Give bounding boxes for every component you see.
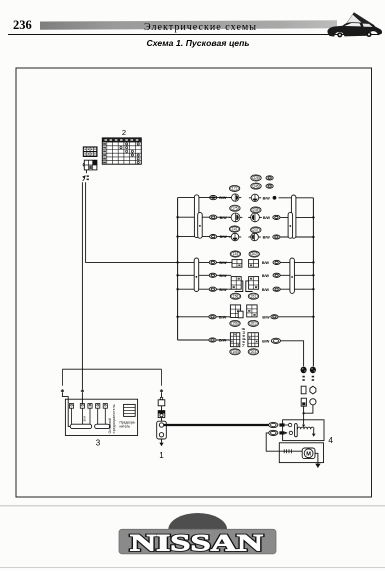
wire winding to motor <box>292 450 302 452</box>
rows5-6 grid connector right <box>246 281 253 292</box>
connector boot left <box>301 386 306 394</box>
svg-text:226: 226 <box>253 176 259 180</box>
wire row4 right <box>280 261 313 263</box>
grommet left lower <box>194 258 199 292</box>
badge 261b <box>248 320 258 326</box>
row4 grid connector right <box>249 260 259 268</box>
oval by 226 <box>266 176 273 180</box>
wire row6 <box>178 288 232 290</box>
wire row1 <box>178 197 232 199</box>
svg-text:245: 245 <box>253 184 259 188</box>
coil end arrow <box>313 429 315 433</box>
junction right bus r5 <box>312 274 314 276</box>
field winding <box>282 450 292 452</box>
wire row1 right <box>279 197 314 199</box>
row4 oval left <box>209 260 216 264</box>
grommet right upper B <box>288 212 293 238</box>
svg-text:235: 235 <box>253 208 259 212</box>
junction left bus r2 <box>176 216 178 218</box>
row3 oval left <box>210 235 217 239</box>
row2 right oval <box>273 215 280 219</box>
badge 235 <box>251 207 261 213</box>
wire row4 <box>178 261 232 263</box>
svg-text:155: 155 <box>232 350 238 354</box>
splice star 1 <box>61 389 63 392</box>
junction right bus r2 <box>312 216 314 218</box>
motor box <box>279 443 323 463</box>
svg-text:B/W: B/W <box>262 274 270 278</box>
svg-text:261: 261 <box>251 322 257 326</box>
junction right bus r7 <box>312 316 314 318</box>
comp1 body <box>161 418 163 422</box>
wire row2 <box>178 216 231 218</box>
badge 237 <box>251 227 261 233</box>
svg-text:B/W: B/W <box>220 216 228 220</box>
wire row8 <box>178 339 231 341</box>
row4 right oval <box>273 260 280 264</box>
grommet right lower <box>290 258 295 293</box>
svg-text:B/W: B/W <box>219 261 227 265</box>
ignition switch harness connector <box>83 160 97 170</box>
oval by 245 <box>266 184 273 188</box>
comp1 connector b <box>161 406 163 411</box>
starter return wire <box>266 433 282 451</box>
badge 261a <box>248 293 258 299</box>
svg-text:B/W: B/W <box>219 315 227 319</box>
svg-text:134: 134 <box>233 252 239 256</box>
left vertical bus <box>177 198 179 340</box>
svg-text:175: 175 <box>232 206 238 210</box>
svg-text:237: 237 <box>253 228 259 232</box>
rows5-6 grid connector left <box>235 281 243 292</box>
fuse 5 <box>103 404 107 409</box>
junction right bus r4 <box>312 261 314 263</box>
harness boundary box <box>62 368 161 370</box>
wire star2 into fuse 2 <box>81 393 83 404</box>
svg-text:NISSAN: NISSAN <box>130 530 263 556</box>
ignition switch connector block <box>83 146 98 157</box>
row8 grid connector left <box>230 333 239 347</box>
svg-text:Схема 1. Пусковая цепь: Схема 1. Пусковая цепь <box>147 38 250 48</box>
row8 grid connector right <box>248 333 259 347</box>
svg-text:1: 1 <box>159 451 164 460</box>
tick marks left <box>302 376 304 378</box>
svg-text:B/W: B/W <box>263 196 271 200</box>
svg-text:предохранитель: предохранитель <box>112 404 116 433</box>
ground arrow <box>315 464 320 468</box>
badge 156a <box>230 293 240 299</box>
svg-text:236: 236 <box>13 18 32 32</box>
row7 right oval <box>271 315 278 319</box>
connector ring right <box>310 386 316 394</box>
badge 175 <box>230 205 240 211</box>
svg-text:171: 171 <box>232 187 238 191</box>
badge 245 <box>251 183 261 189</box>
connector ring right 2 <box>310 399 316 405</box>
splice star 3 <box>161 389 163 392</box>
svg-text:B/W: B/W <box>219 339 227 343</box>
badge 203 <box>248 349 258 355</box>
svg-text:B/W: B/W <box>219 196 227 200</box>
starter feed connector left dark <box>301 367 307 374</box>
wire left feed down <box>303 406 305 420</box>
svg-text:B/W: B/W <box>263 216 271 220</box>
svg-text:203: 203 <box>251 350 257 354</box>
thick wire to starter <box>164 424 269 426</box>
splice star 2 <box>81 389 83 392</box>
motor M <box>302 448 315 459</box>
row8 oval left <box>209 338 216 342</box>
wire row3 <box>178 236 232 238</box>
grommet left upper B <box>198 212 203 238</box>
fuse 1 <box>69 404 73 409</box>
header rule <box>8 34 378 35</box>
wire row7 right <box>278 316 313 318</box>
fuse 4 <box>96 404 100 409</box>
badge 226 <box>251 175 261 181</box>
grommet right upper A <box>291 195 296 238</box>
ignition switch contact table <box>102 138 141 164</box>
badge 134 <box>230 251 240 257</box>
row2 connector right <box>251 213 260 222</box>
svg-text:B/W: B/W <box>219 274 227 278</box>
starter solenoid box 4 <box>283 420 324 441</box>
badge 156b <box>230 320 240 326</box>
wire row2 right <box>280 216 313 218</box>
wire row7 <box>178 316 231 318</box>
row1 right dark dot <box>273 196 277 200</box>
starter input oval 1 <box>269 422 278 427</box>
wire star1 into fuse box <box>62 393 70 427</box>
starter feed connector right dark <box>310 367 316 374</box>
row3 right oval <box>273 235 280 239</box>
comp1 arrow <box>161 439 163 443</box>
solenoid pin 1 <box>279 423 284 426</box>
svg-text:Черный: Черный <box>240 327 246 346</box>
badge 110 <box>229 226 239 232</box>
svg-text:нитель: нитель <box>120 424 131 428</box>
svg-text:156: 156 <box>232 322 238 326</box>
solenoid pin 2 <box>279 431 284 434</box>
right vertical bus <box>312 198 314 366</box>
motor ground wire <box>315 453 318 463</box>
svg-text:B/W: B/W <box>263 236 271 240</box>
svg-text:2: 2 <box>122 128 126 137</box>
svg-text:Электрические схемы: Электрические схемы <box>144 22 256 33</box>
row7 grid connector right <box>247 305 257 317</box>
row6 right oval <box>273 287 280 291</box>
row1 connector E right <box>251 194 258 201</box>
solenoid contact b <box>285 432 288 434</box>
connector tail and splice arrow <box>85 170 87 173</box>
fuse box 3 <box>65 399 137 435</box>
row4 grid connector left <box>232 260 242 268</box>
wire right feed down and join <box>304 405 313 413</box>
junction left bus r4 <box>176 261 178 263</box>
bus bar 2 <box>95 424 110 428</box>
tick marks right <box>312 376 314 378</box>
feed arrow into solenoid <box>303 420 305 425</box>
svg-text:B/W: B/W <box>262 339 270 343</box>
svg-text:262: 262 <box>252 252 258 256</box>
junction left bus r3 <box>176 235 178 237</box>
svg-text:3: 3 <box>96 439 101 448</box>
bus bar 1 <box>70 424 92 428</box>
svg-text:30A: 30A <box>82 415 86 421</box>
wire row3 right <box>280 236 313 238</box>
svg-text:261: 261 <box>251 294 257 298</box>
connector boot left 2 <box>301 398 306 406</box>
junction left bus r7 <box>176 316 178 318</box>
solenoid plunger <box>295 424 298 437</box>
row7 grid connector left <box>230 305 240 318</box>
wire switch to bus (row4 feed) <box>86 182 178 262</box>
fusible link block <box>124 404 136 416</box>
junction right bus r3 <box>312 236 314 238</box>
svg-text:156: 156 <box>233 294 239 298</box>
grommet left upper A <box>194 195 199 238</box>
row1 connector oval left <box>210 196 217 200</box>
row2 oval left <box>210 215 217 219</box>
row2 connector left <box>231 213 240 222</box>
junction left bus r6 <box>176 288 178 290</box>
row3 connector right <box>251 233 259 241</box>
wire into component 1 <box>161 393 163 398</box>
junction feed <box>303 412 305 414</box>
svg-text:M: M <box>306 451 311 457</box>
row1 connector E left <box>232 194 239 201</box>
nissan bar <box>119 529 276 554</box>
svg-text:110: 110 <box>232 227 237 231</box>
bottom faint rule <box>0 504 385 507</box>
solenoid contact a <box>285 424 289 426</box>
solenoid coil <box>297 427 313 429</box>
fuse 3 <box>88 404 92 409</box>
header car icon <box>327 13 382 38</box>
row5 oval left <box>209 273 216 277</box>
nissan dome <box>168 513 227 530</box>
starter input oval 2 <box>269 430 278 435</box>
svg-text:4: 4 <box>328 436 333 445</box>
fuse 2 <box>80 404 84 409</box>
row8 right oval <box>271 338 280 343</box>
junction right bus r6 <box>312 288 314 290</box>
row7 oval left <box>209 315 216 319</box>
wire row5 right <box>280 274 313 276</box>
row5 right oval <box>273 273 280 277</box>
bottom faint rule 2 <box>0 566 385 569</box>
comp1 connector a <box>160 397 163 400</box>
row3 connector left <box>231 233 239 241</box>
wire row6 right <box>280 288 313 290</box>
svg-text:B/W: B/W <box>262 261 270 265</box>
wire row5 <box>178 274 232 276</box>
row6 oval left <box>209 287 216 291</box>
junction left bus r5 <box>176 274 178 276</box>
wire switch to fuse box <box>81 182 83 389</box>
schematic frame <box>16 68 372 497</box>
wire row8 to starter feed <box>281 341 304 367</box>
badge 155 <box>230 349 240 355</box>
badge 171 <box>229 185 239 191</box>
svg-text:B/W: B/W <box>220 235 228 239</box>
svg-text:B/W: B/W <box>219 288 227 292</box>
svg-text:B/W: B/W <box>262 315 270 319</box>
svg-text:B/W: B/W <box>262 288 270 292</box>
badge 262 <box>249 251 259 257</box>
